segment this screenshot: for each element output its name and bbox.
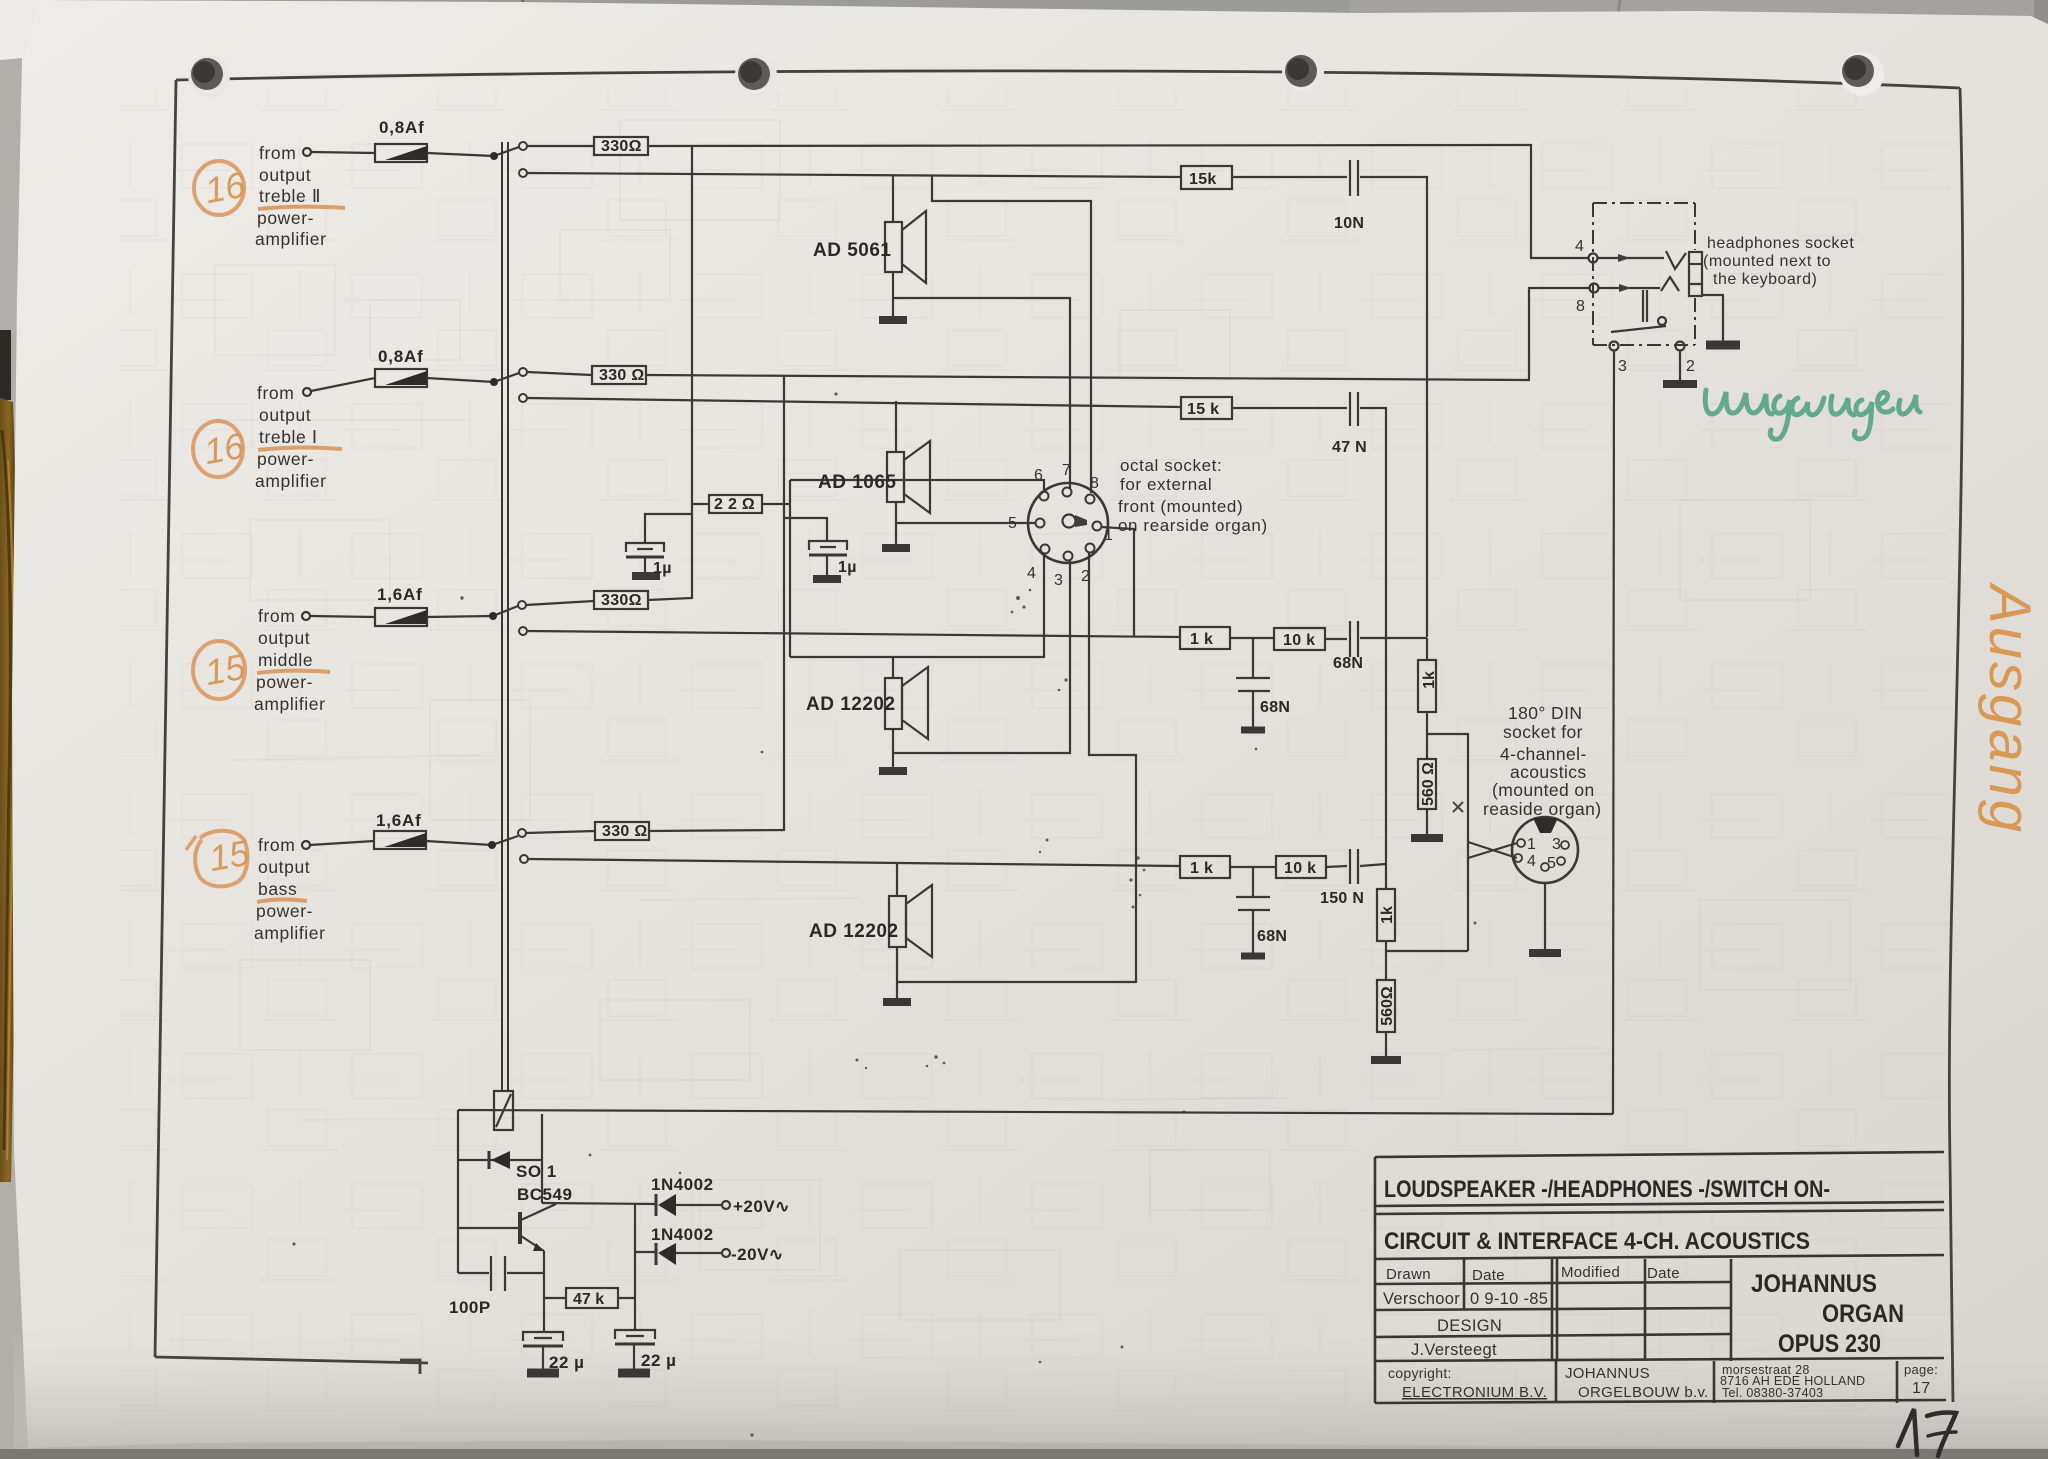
ground	[882, 544, 910, 552]
loudspeaker AD 1065	[887, 452, 904, 502]
svg-text:1N4002: 1N4002	[651, 1175, 714, 1194]
junction dots at switch poles	[488, 152, 498, 849]
svg-text:output: output	[258, 628, 310, 648]
svg-text:1k: 1k	[1421, 671, 1438, 689]
svg-text:CIRCUIT & INTERFACE 4-CH. ACO: CIRCUIT & INTERFACE 4-CH. ACOUSTICS	[1384, 1228, 1810, 1255]
svg-text:5: 5	[1547, 855, 1556, 872]
orange circled 16 (treble II)	[194, 161, 249, 215]
wire middle direct net	[528, 631, 1180, 637]
svg-text:4: 4	[1575, 238, 1584, 255]
loudspeaker AD 12202 middle	[885, 678, 902, 729]
svg-text:ELECTRONIUM B.V.: ELECTRONIUM B.V.	[1402, 1384, 1547, 1401]
svg-text:JOHANNUS: JOHANNUS	[1565, 1365, 1650, 1382]
fuse 0,8Af treble II	[375, 144, 427, 162]
wire treble I 330ohm net	[527, 372, 592, 375]
resistor 330R treble II	[594, 137, 648, 155]
resistor 1k middle row	[1180, 627, 1230, 649]
resistor 1k vertical (middle leg)	[1418, 660, 1436, 712]
wire pin2 to ground	[1679, 350, 1681, 381]
ring contact	[1661, 277, 1679, 291]
svg-text:power-: power-	[257, 208, 314, 228]
wire jack sleeve to ground	[1702, 295, 1723, 342]
wire switch pole treble II	[494, 147, 519, 156]
svg-text:2: 2	[1081, 568, 1090, 585]
node headphone pin 4	[1589, 254, 1598, 263]
svg-text:1,6Af: 1,6Af	[376, 811, 422, 830]
wire treble II 330ohm net	[527, 145, 594, 147]
wire vertical x790 pin6 rail to speaker3 rail	[789, 480, 791, 657]
orange circled 15 (bass)	[186, 831, 253, 887]
svg-text:headphones socket: headphones socket	[1707, 235, 1854, 252]
wire crossover X to DIN pins	[1468, 842, 1517, 858]
capacitor 10N	[1349, 160, 1351, 196]
octal socket outline	[1028, 483, 1108, 563]
svg-text:6: 6	[1034, 467, 1043, 484]
wire diode2 leg	[634, 1204, 636, 1329]
loudspeaker AD 12202 bass	[889, 896, 906, 947]
wire emitter vertical	[543, 1251, 545, 1332]
svg-text:acoustics: acoustics	[1510, 762, 1587, 782]
svg-text:-20V∿: -20V∿	[731, 1245, 784, 1264]
wire to headphone pin 4	[648, 145, 1589, 258]
svg-text:560 Ω: 560 Ω	[1420, 762, 1437, 806]
wire	[310, 616, 375, 617]
speaker labels	[806, 240, 899, 942]
ground	[1663, 380, 1697, 388]
wire pin8 to ring contact	[1599, 287, 1660, 289]
wire branch to DIN crossover	[1386, 950, 1468, 952]
svg-text:reaside organ): reaside organ)	[1483, 799, 1601, 819]
wire	[426, 841, 492, 845]
diode SO 1	[458, 1159, 542, 1161]
resistor 15k treble II	[1181, 166, 1232, 189]
pen mark x	[1453, 802, 1463, 812]
wire	[1232, 407, 1347, 409]
svg-text:15 k: 15 k	[1187, 401, 1219, 418]
wire to bass junction	[1360, 864, 1386, 866]
svg-text:power-: power-	[256, 901, 313, 921]
resistor 10k bass row	[1276, 856, 1326, 878]
wire speaker2 bottom to octal pin 5	[896, 522, 1035, 524]
svg-text:4: 4	[1027, 565, 1036, 582]
ground	[1241, 727, 1265, 734]
capacitor 68N shunt bass	[1252, 867, 1254, 896]
svg-text:middle: middle	[258, 650, 313, 670]
wire switch pole treble I	[494, 373, 519, 382]
wire	[1230, 866, 1276, 868]
svg-text:treble Ⅰ: treble Ⅰ	[259, 427, 318, 447]
rotated value labels (vertical resistors)	[1379, 671, 1438, 1026]
svg-text:8: 8	[1090, 475, 1099, 492]
wire	[311, 378, 375, 391]
svg-text:Ausgang: Ausgang	[1977, 582, 2042, 835]
svg-text:47 N: 47 N	[1332, 439, 1367, 456]
wire branch to DIN crossover	[1427, 734, 1468, 951]
svg-text:AD 5061: AD 5061	[813, 240, 892, 261]
orange underlines	[257, 207, 345, 902]
wire octal pin 1 to middle direct net	[1101, 527, 1134, 636]
svg-text:octal socket:: octal socket:	[1120, 456, 1222, 475]
wire	[692, 503, 709, 505]
wire pin3 long drop to relay line	[1613, 350, 1614, 1114]
ground	[879, 316, 907, 324]
capacitor 150N series bass	[1349, 849, 1351, 884]
svg-text:Date: Date	[1472, 1267, 1505, 1284]
svg-text:for external: for external	[1120, 475, 1212, 494]
headphone switch dash-dot box	[1593, 203, 1695, 345]
capacitor 1u (left)	[626, 543, 664, 552]
wire treble II direct net with 15k	[527, 173, 1181, 177]
punch hole top 1	[188, 55, 230, 97]
bottom shadow on paper	[14, 1330, 2048, 1455]
wire speaker3 bottom to octal pin 3	[893, 560, 1070, 753]
svg-text:15: 15	[206, 832, 254, 880]
svg-text:100P: 100P	[449, 1298, 491, 1317]
svg-text:power-: power-	[256, 672, 313, 692]
wood strip left	[0, 398, 18, 1182]
svg-text:0,8Af: 0,8Af	[378, 347, 424, 366]
svg-text:on rearside organ): on rearside organ)	[1118, 516, 1268, 535]
wire	[1230, 637, 1274, 639]
svg-text:amplifier: amplifier	[254, 694, 326, 714]
svg-text:amplifier: amplifier	[254, 923, 326, 943]
capacitor 22u (right)	[615, 1330, 655, 1339]
svg-text:(mounted on: (mounted on	[1492, 780, 1595, 800]
svg-text:3: 3	[1552, 836, 1561, 853]
svg-text:330Ω: 330Ω	[601, 138, 642, 155]
wire	[310, 841, 374, 845]
node: middle input terminal	[302, 612, 310, 620]
resistor 1k vertical (bass leg)	[1377, 889, 1395, 941]
svg-text:17: 17	[1912, 1380, 1930, 1397]
svg-text:1 k: 1 k	[1190, 631, 1213, 648]
ground	[527, 1369, 559, 1378]
svg-text:from: from	[257, 383, 294, 403]
svg-text:page:: page:	[1904, 1362, 1938, 1377]
headphone note text	[1703, 235, 1854, 288]
fuse 1,6Af middle	[375, 608, 427, 626]
wire long horizontal to headphone pin3 drop	[458, 1110, 1613, 1114]
capacitor 68N series middle	[1349, 621, 1351, 657]
resistor 47k	[544, 1297, 566, 1299]
svg-text:Drawn: Drawn	[1386, 1266, 1431, 1283]
wire	[427, 378, 494, 382]
node headphone pin 2	[1676, 342, 1685, 351]
svg-text:AD 1065: AD 1065	[818, 472, 897, 493]
capacitor 47N	[1349, 392, 1351, 426]
wire speaker3 top rail to octal pin 4	[790, 554, 1044, 657]
svg-text:10N: 10N	[1334, 215, 1364, 232]
svg-text:0 9-10 -85: 0 9-10 -85	[1470, 1290, 1548, 1308]
wire speaker4 bottom to octal pin 2	[897, 553, 1136, 982]
loudspeaker AD 5061	[885, 222, 902, 272]
svg-text:from: from	[258, 835, 295, 855]
svg-text:3: 3	[1618, 358, 1627, 375]
wire middle 330ohm net	[526, 601, 594, 605]
svg-text:from: from	[258, 606, 295, 626]
left gray strip	[0, 0, 26, 1459]
svg-text:1: 1	[1527, 836, 1536, 853]
orange circled 16 (treble I)	[193, 421, 248, 477]
octal socket note text	[1118, 456, 1268, 535]
octal pin numbers	[1008, 462, 1113, 589]
svg-text:7: 7	[1062, 462, 1071, 479]
svg-text:68N: 68N	[1260, 699, 1290, 716]
jack plug body	[1689, 252, 1702, 296]
ground	[879, 767, 907, 775]
svg-text:SO 1: SO 1	[516, 1162, 557, 1181]
node -20V terminal	[722, 1249, 730, 1257]
svg-text:the keyboard): the keyboard)	[1713, 271, 1817, 288]
wire	[1232, 176, 1347, 178]
tip contact V	[1666, 251, 1686, 269]
node: bass input terminal	[302, 841, 310, 849]
svg-text:10 k: 10 k	[1284, 860, 1316, 877]
node +20V terminal	[722, 1201, 730, 1209]
svg-text:Tel. 08380-37403: Tel. 08380-37403	[1722, 1386, 1823, 1400]
svg-text:1µ: 1µ	[653, 560, 672, 577]
wire	[1326, 866, 1347, 867]
svg-text:LOUDSPEAKER -/HEADPHONES -/SWI: LOUDSPEAKER -/HEADPHONES -/SWITCH ON-	[1384, 1176, 1830, 1203]
resistor 330R treble I	[592, 366, 646, 384]
svg-text:AD 12202: AD 12202	[806, 694, 896, 715]
resistor 1k bass row	[1180, 856, 1230, 878]
svg-text:5: 5	[1008, 515, 1017, 532]
svg-text:10 k: 10 k	[1283, 632, 1315, 649]
ground	[1411, 834, 1443, 842]
octal socket keyway	[1063, 515, 1088, 528]
capacitor 1u (right)	[809, 541, 847, 550]
wire left vertical	[457, 1110, 459, 1273]
capacitor 22u (left)	[523, 1332, 563, 1341]
node headphone pin 8	[1590, 284, 1599, 293]
DIN note text	[1483, 703, 1601, 819]
wire pin4 to tip contact	[1598, 257, 1664, 259]
capacitor 100P	[458, 1272, 489, 1274]
ground	[1241, 953, 1265, 960]
transistor BC549	[518, 1212, 522, 1244]
orange circled 15 (middle)	[193, 641, 249, 699]
wire	[427, 153, 494, 156]
svg-text:output: output	[259, 165, 311, 185]
wire 1u cap 1 hook	[645, 514, 692, 542]
ground	[618, 1369, 650, 1378]
svg-text:J.Versteegt: J.Versteegt	[1411, 1341, 1497, 1359]
capacitor 68N shunt middle	[1252, 638, 1254, 677]
svg-text:16: 16	[201, 425, 249, 473]
svg-text:JOHANNUS: JOHANNUS	[1751, 1270, 1877, 1298]
svg-text:treble Ⅱ: treble Ⅱ	[259, 186, 321, 206]
ground	[1529, 949, 1561, 957]
svg-text:1k: 1k	[1379, 906, 1396, 924]
svg-text:68N: 68N	[1333, 655, 1363, 672]
svg-text:15: 15	[202, 646, 250, 694]
wire collector row	[542, 1203, 656, 1204]
svg-text:15k: 15k	[1189, 171, 1217, 188]
fuse labels	[376, 118, 425, 830]
octal socket pins	[1036, 488, 1102, 561]
wire	[762, 503, 790, 505]
ground	[632, 572, 660, 580]
svg-text:ORGELBOUW b.v.: ORGELBOUW b.v.	[1578, 1384, 1709, 1401]
svg-text:from: from	[259, 143, 296, 163]
relay actuating bus (double line)	[501, 142, 503, 1091]
resistor 330R middle	[594, 591, 648, 609]
wire 10N to junction with middle filter	[1360, 177, 1427, 637]
svg-text:BC549: BC549	[517, 1185, 572, 1204]
svg-text:150 N: 150 N	[1320, 890, 1364, 907]
svg-text:DESIGN: DESIGN	[1437, 1317, 1502, 1335]
resistor 560R vertical (middle leg)	[1418, 759, 1436, 809]
punch hole top 4	[1840, 52, 1884, 96]
wire relay to collector node	[541, 1114, 543, 1203]
svg-text:2: 2	[1686, 358, 1695, 375]
green handwritten word umgangen	[1705, 390, 1920, 439]
DIN socket	[1512, 817, 1578, 883]
ground	[883, 998, 911, 1006]
ground	[1706, 341, 1740, 350]
svg-text:0,8Af: 0,8Af	[379, 118, 425, 137]
svg-text:front (mounted): front (mounted)	[1118, 497, 1243, 516]
ground	[813, 575, 841, 583]
orange vertical word Ausgang (right margin)	[1977, 582, 2042, 835]
wire DIN ground stem	[1544, 883, 1546, 950]
svg-text:2 2 Ω: 2 2 Ω	[714, 496, 755, 513]
diode 1N4002 (-20V)	[655, 1243, 658, 1265]
node: treble I input terminal	[303, 388, 311, 396]
svg-text:330 Ω: 330 Ω	[599, 367, 644, 384]
resistor 10k middle row	[1274, 628, 1325, 650]
handwritten page number 17 (pen)	[1898, 1409, 1956, 1456]
ground	[1371, 1056, 1401, 1064]
svg-text:8: 8	[1576, 298, 1585, 315]
svg-text:4: 4	[1527, 853, 1536, 870]
svg-text:socket for: socket for	[1503, 722, 1583, 742]
faint reverse-side bleed-through ghost marks	[200, 120, 1850, 1320]
svg-text:amplifier: amplifier	[255, 471, 327, 491]
svg-text:330 Ω: 330 Ω	[602, 823, 647, 840]
node headphone pin 3	[1610, 342, 1619, 351]
svg-text:1,6Af: 1,6Af	[377, 585, 423, 604]
main channel wiring	[526, 137, 1590, 866]
wire middle 330R up to 22R node	[648, 146, 692, 600]
resistor 15k treble I	[1181, 397, 1232, 419]
svg-text:(mounted next to: (mounted next to	[1703, 253, 1831, 270]
headphone pin labels	[1575, 238, 1695, 375]
switch actuator double line	[1642, 290, 1644, 322]
fuse 1,6Af bass	[374, 831, 426, 849]
svg-text:1: 1	[1104, 527, 1113, 544]
wire bass 330ohm net	[526, 831, 595, 833]
resistor 330R bass	[595, 822, 649, 840]
svg-text:AD 12202: AD 12202	[809, 921, 899, 942]
svg-text:OPUS 230: OPUS 230	[1778, 1330, 1881, 1358]
wire switch pole bass	[492, 836, 518, 845]
wire to 1k vertical junction	[1360, 637, 1427, 639]
wire 1u cap 2 hook	[784, 518, 827, 541]
wire speaker1 bottom to octal pin 7	[893, 298, 1070, 488]
relay switch contacts (8 small circles)	[518, 142, 528, 863]
diode 1N4002 (+20V)	[655, 1194, 658, 1216]
relay coil	[494, 1091, 513, 1130]
punch hole top 3	[1282, 51, 1324, 93]
resistor 22R	[709, 495, 762, 513]
wire octal pin 6 rail	[790, 480, 1044, 491]
wire 47N drop to bass filter junction	[1360, 408, 1386, 864]
svg-text:Verschoor: Verschoor	[1383, 1290, 1460, 1308]
svg-text:4-channel-: 4-channel-	[1500, 744, 1587, 764]
wire	[427, 616, 493, 617]
svg-text:+20V∿: +20V∿	[733, 1197, 790, 1216]
wire	[1325, 638, 1347, 640]
wire switch pole middle	[493, 606, 518, 616]
svg-text:180° DIN: 180° DIN	[1508, 703, 1582, 723]
switch lever	[1611, 326, 1666, 332]
svg-text:560Ω: 560Ω	[1379, 986, 1396, 1026]
svg-text:bass: bass	[258, 879, 297, 899]
svg-text:output: output	[258, 857, 310, 877]
resistor 560R vertical (bass leg)	[1377, 980, 1395, 1032]
svg-text:330Ω: 330Ω	[601, 592, 642, 609]
svg-text:1N4002: 1N4002	[651, 1225, 714, 1244]
svg-text:Modified: Modified	[1561, 1264, 1620, 1281]
left channel description texts	[254, 143, 327, 943]
svg-text:copyright:: copyright:	[1388, 1365, 1452, 1381]
wire treble I direct net	[527, 398, 1181, 407]
node: treble II input terminal	[303, 148, 311, 156]
svg-text:22 µ: 22 µ	[549, 1353, 584, 1372]
wire to headphone pin 8	[646, 288, 1590, 380]
wire bass direct net	[528, 859, 1180, 866]
wire	[311, 152, 375, 153]
wire hook speaker1 top to octal pin 8	[932, 175, 1091, 493]
svg-text:3: 3	[1054, 572, 1063, 589]
svg-text:1 k: 1 k	[1190, 860, 1213, 877]
svg-text:16: 16	[202, 164, 250, 212]
component value labels main area	[599, 138, 1367, 945]
svg-text:68N: 68N	[1257, 928, 1287, 945]
svg-text:power-: power-	[257, 449, 314, 469]
svg-text:amplifier: amplifier	[255, 229, 327, 249]
wire bass 330R up to treble I 330R net	[649, 375, 784, 831]
svg-text:Date: Date	[1647, 1265, 1680, 1282]
fuse 0,8Af treble I	[375, 369, 427, 387]
svg-text:47 k: 47 k	[573, 1291, 604, 1308]
punch hole top 2	[735, 54, 777, 96]
svg-text:output: output	[259, 405, 311, 425]
svg-text:1µ: 1µ	[838, 559, 857, 576]
svg-text:ORGAN: ORGAN	[1822, 1300, 1904, 1328]
svg-text:22 µ: 22 µ	[641, 1351, 676, 1370]
relay area labels	[449, 1162, 790, 1372]
